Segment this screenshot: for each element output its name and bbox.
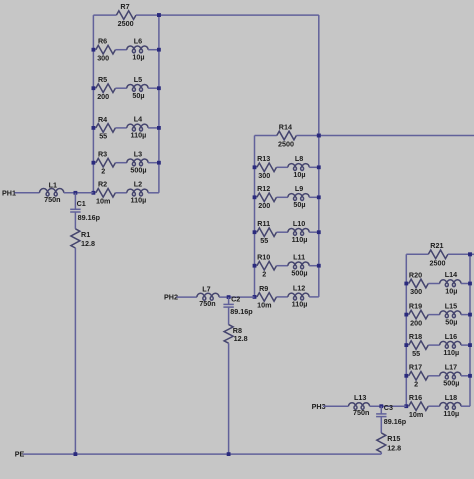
wire — [115, 49, 126, 51]
wire: PE bus — [23, 453, 382, 455]
svg-text:L5: L5 — [134, 75, 142, 84]
inductor L11 — [288, 252, 309, 277]
wire: ladder1 right rail — [158, 15, 160, 193]
wire — [461, 405, 470, 407]
wire — [380, 406, 382, 414]
wire — [93, 87, 95, 89]
svg-text:R10: R10 — [257, 253, 270, 262]
wire — [277, 265, 288, 267]
resistor R6 — [96, 37, 116, 63]
svg-text:R15: R15 — [387, 434, 400, 443]
svg-text:R18: R18 — [409, 332, 422, 341]
svg-text:2500: 2500 — [118, 19, 134, 28]
svg-text:PH2: PH2 — [164, 293, 178, 302]
svg-text:110µ: 110µ — [292, 235, 308, 244]
junction — [404, 313, 408, 317]
svg-text:10µ: 10µ — [132, 53, 144, 62]
inductor L16 — [440, 332, 461, 357]
wire — [115, 87, 126, 89]
wire — [93, 14, 116, 16]
junction — [74, 452, 78, 456]
wire: ladder3 top to right edge — [470, 253, 474, 255]
svg-text:300: 300 — [410, 287, 422, 296]
svg-text:L11: L11 — [293, 252, 305, 261]
wire — [406, 314, 408, 316]
inductor L18 — [440, 393, 461, 418]
svg-text:10m: 10m — [257, 301, 271, 310]
wire — [14, 192, 39, 194]
wire — [115, 192, 126, 194]
svg-text:R17: R17 — [409, 363, 422, 372]
resistor R4 — [96, 115, 116, 141]
junction — [468, 252, 472, 256]
wire — [461, 314, 470, 316]
resistor R16 — [409, 393, 429, 419]
junction — [317, 165, 321, 169]
wire — [428, 314, 439, 316]
svg-text:500µ: 500µ — [130, 166, 146, 175]
inductor L15 — [440, 301, 461, 326]
svg-text:10m: 10m — [409, 410, 423, 419]
svg-text:750n: 750n — [199, 299, 215, 308]
svg-text:55: 55 — [412, 349, 420, 358]
junction — [253, 230, 257, 234]
svg-text:110µ: 110µ — [131, 196, 147, 205]
svg-text:PH1: PH1 — [2, 188, 16, 197]
wire — [461, 344, 470, 346]
junction — [157, 161, 161, 165]
junction — [253, 264, 257, 268]
svg-text:2: 2 — [101, 166, 105, 175]
svg-text:110µ: 110µ — [131, 131, 147, 140]
wire — [148, 192, 159, 194]
wire — [448, 253, 470, 255]
wire — [428, 375, 439, 377]
wire — [74, 248, 76, 454]
svg-text:200: 200 — [410, 318, 422, 327]
junction node PH1/C1 — [74, 191, 78, 195]
wire — [277, 166, 288, 168]
svg-text:300: 300 — [258, 171, 270, 180]
svg-text:R20: R20 — [409, 270, 422, 279]
svg-text:R19: R19 — [409, 302, 422, 311]
wire — [93, 127, 95, 129]
junction — [92, 191, 96, 195]
wire — [148, 162, 159, 164]
svg-text:R13: R13 — [257, 154, 270, 163]
svg-text:750n: 750n — [44, 195, 60, 204]
wire — [406, 405, 408, 407]
junction node PH2/C2 — [227, 295, 231, 299]
junction — [227, 452, 231, 456]
svg-text:L6: L6 — [134, 36, 142, 45]
junction — [404, 282, 408, 286]
svg-text:C3: C3 — [384, 403, 393, 412]
svg-text:R21: R21 — [430, 241, 443, 250]
svg-text:R9: R9 — [259, 284, 268, 293]
svg-text:500µ: 500µ — [291, 269, 307, 278]
svg-text:R7: R7 — [120, 2, 129, 11]
junction — [92, 86, 96, 90]
inductor L17 — [440, 363, 461, 388]
svg-text:L18: L18 — [445, 393, 457, 402]
svg-text:2: 2 — [414, 380, 418, 389]
capacitor C2 — [223, 295, 253, 317]
junction — [157, 86, 161, 90]
svg-text:R2: R2 — [98, 180, 107, 189]
inductor L6 — [127, 36, 148, 61]
junction — [468, 313, 472, 317]
inductor L5 — [127, 75, 148, 100]
wire: ladder3 right rail — [469, 254, 471, 406]
svg-text:89.16p: 89.16p — [384, 417, 407, 426]
svg-text:R3: R3 — [98, 150, 107, 159]
resistor R19 — [409, 302, 429, 328]
wire — [228, 297, 230, 304]
resistor R18 — [409, 332, 429, 358]
wire — [228, 307, 230, 325]
resistor R2 — [96, 180, 116, 206]
wire: ladder2 right rail — [318, 136, 320, 297]
svg-text:R6: R6 — [98, 37, 107, 46]
resistor R7 — [116, 2, 136, 28]
inductor L1 — [40, 181, 64, 204]
svg-text:L1: L1 — [49, 181, 57, 190]
svg-text:10µ: 10µ — [445, 286, 457, 295]
junction node PH3/C3 — [379, 404, 383, 408]
wire — [461, 375, 470, 377]
wire — [115, 162, 126, 164]
inductor L9 — [288, 184, 309, 209]
resistor R1 — [71, 229, 95, 248]
inductor L14 — [440, 270, 461, 295]
svg-text:110µ: 110µ — [443, 348, 459, 357]
svg-text:L2: L2 — [134, 180, 142, 189]
junction — [253, 295, 257, 299]
svg-text:L7: L7 — [202, 284, 210, 293]
capacitor C1 — [70, 199, 100, 222]
wire — [228, 343, 230, 454]
inductor L12 — [288, 284, 309, 309]
wire — [255, 135, 277, 137]
svg-text:10µ: 10µ — [293, 170, 305, 179]
wire: ladder1 top to ladder2 rail — [159, 14, 319, 16]
inductor L3 — [127, 149, 148, 174]
svg-text:L15: L15 — [445, 301, 457, 310]
wire — [93, 192, 95, 194]
svg-text:L16: L16 — [445, 332, 457, 341]
svg-text:89.16p: 89.16p — [230, 307, 253, 316]
wire — [380, 452, 382, 454]
wire — [148, 87, 159, 89]
inductor L8 — [288, 154, 309, 179]
svg-text:L9: L9 — [295, 184, 303, 193]
junction — [157, 126, 161, 130]
wire — [309, 196, 319, 198]
resistor R17 — [409, 363, 429, 389]
svg-text:110µ: 110µ — [443, 409, 459, 418]
svg-text:L8: L8 — [295, 154, 303, 163]
wire — [93, 162, 95, 164]
wire — [428, 344, 439, 346]
resistor R5 — [96, 75, 116, 101]
svg-text:55: 55 — [260, 236, 268, 245]
wire — [64, 192, 94, 194]
resistor R3 — [96, 150, 116, 176]
inductor L4 — [127, 115, 148, 140]
resistor R13 — [257, 154, 277, 180]
resistor R14 — [277, 122, 297, 148]
resistor R20 — [409, 270, 429, 296]
junction — [404, 343, 408, 347]
junction — [317, 264, 321, 268]
wire — [296, 135, 318, 137]
wire — [406, 375, 408, 377]
wire — [380, 417, 382, 433]
wire — [428, 283, 439, 285]
svg-text:L4: L4 — [134, 115, 142, 124]
wire — [255, 196, 257, 198]
wire — [277, 231, 288, 233]
wire — [255, 296, 257, 298]
svg-text:50µ: 50µ — [293, 200, 305, 209]
resistor R21 — [428, 241, 448, 267]
wire: ladder1 left rail — [92, 15, 94, 193]
resistor R8 — [224, 325, 248, 344]
svg-text:12.8: 12.8 — [387, 444, 401, 453]
svg-text:R12: R12 — [257, 184, 270, 193]
junction — [404, 404, 408, 408]
wire — [177, 296, 197, 298]
wire — [309, 166, 319, 168]
wire — [255, 265, 257, 267]
svg-text:500µ: 500µ — [443, 379, 459, 388]
inductor L7 — [197, 284, 219, 308]
junction — [92, 48, 96, 52]
svg-text:300: 300 — [97, 53, 109, 62]
wire — [323, 405, 349, 407]
junction — [317, 134, 321, 138]
svg-text:C1: C1 — [77, 199, 86, 208]
svg-text:200: 200 — [97, 92, 109, 101]
junction — [157, 13, 161, 17]
svg-text:10m: 10m — [96, 197, 110, 206]
svg-text:50µ: 50µ — [445, 317, 457, 326]
wire — [74, 212, 76, 229]
wire — [93, 49, 95, 51]
svg-text:50µ: 50µ — [132, 91, 144, 100]
wire — [148, 49, 159, 51]
wire — [461, 283, 470, 285]
wire — [309, 231, 319, 233]
junction — [253, 165, 257, 169]
resistor R10 — [257, 253, 277, 279]
wire: ladder2 left rail — [254, 136, 256, 297]
wire — [255, 166, 257, 168]
wire — [370, 405, 407, 407]
svg-text:12.8: 12.8 — [81, 239, 95, 248]
wire — [115, 127, 126, 129]
wire — [309, 296, 319, 298]
junction — [92, 126, 96, 130]
junction — [157, 48, 161, 52]
wire — [148, 127, 159, 129]
svg-text:R4: R4 — [98, 115, 107, 124]
inductor L10 — [288, 219, 309, 244]
svg-text:L17: L17 — [445, 363, 457, 372]
svg-text:C2: C2 — [231, 295, 240, 304]
svg-text:L3: L3 — [134, 149, 142, 158]
svg-text:2500: 2500 — [430, 258, 446, 267]
junction — [317, 195, 321, 199]
wire — [277, 196, 288, 198]
resistor R12 — [257, 184, 277, 210]
wire — [255, 231, 257, 233]
svg-text:R11: R11 — [257, 219, 270, 228]
junction — [317, 230, 321, 234]
wire — [428, 405, 439, 407]
wire — [136, 14, 159, 16]
wire — [406, 283, 408, 285]
junction — [157, 13, 161, 17]
wire — [309, 265, 319, 267]
resistor R11 — [257, 219, 277, 245]
wire — [406, 253, 428, 255]
svg-text:2: 2 — [262, 269, 266, 278]
svg-text:200: 200 — [258, 201, 270, 210]
wire: y=135.5 to right edge — [319, 135, 474, 137]
svg-text:L13: L13 — [354, 393, 366, 402]
svg-text:55: 55 — [99, 132, 107, 141]
junction — [468, 282, 472, 286]
junction — [468, 252, 472, 256]
svg-text:L14: L14 — [445, 270, 457, 279]
junction — [92, 161, 96, 165]
junction — [468, 343, 472, 347]
junction — [468, 374, 472, 378]
capacitor C3 — [376, 403, 407, 426]
resistor R15 — [377, 433, 401, 453]
junction — [253, 195, 257, 199]
wire — [406, 344, 408, 346]
resistor R9 — [257, 284, 277, 310]
svg-text:750n: 750n — [353, 408, 369, 417]
svg-text:2500: 2500 — [278, 140, 294, 149]
svg-text:R14: R14 — [279, 122, 292, 131]
wire: vertical x=318.8 down to ladder2 top — [318, 15, 320, 135]
svg-text:12.8: 12.8 — [234, 334, 248, 343]
wire — [219, 296, 254, 298]
svg-text:R5: R5 — [98, 75, 107, 84]
inductor L13 — [349, 393, 370, 417]
svg-text:L12: L12 — [293, 284, 305, 293]
inductor L2 — [127, 180, 148, 205]
wire: ladder3 left rail — [405, 254, 407, 406]
svg-text:R1: R1 — [81, 230, 90, 239]
svg-text:L10: L10 — [293, 219, 305, 228]
svg-text:110µ: 110µ — [292, 300, 308, 309]
junction — [404, 374, 408, 378]
svg-text:89.16p: 89.16p — [78, 213, 101, 222]
wire — [277, 296, 288, 298]
junction — [317, 134, 321, 138]
wire — [74, 193, 76, 210]
svg-text:R16: R16 — [409, 393, 422, 402]
